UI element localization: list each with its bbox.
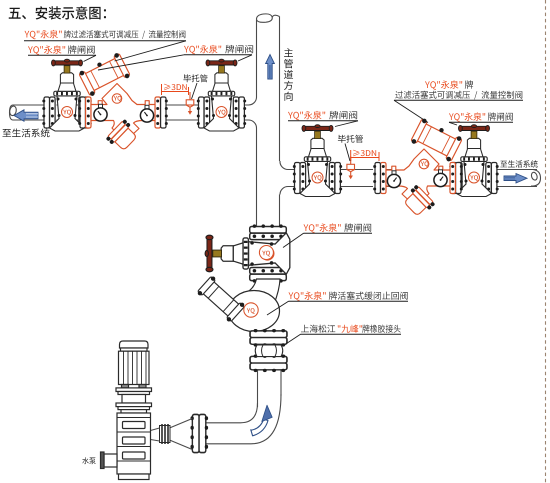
expanding cone xyxy=(170,419,193,450)
label L3 xyxy=(288,111,325,120)
label L1 xyxy=(25,30,62,39)
text pump xyxy=(82,457,95,464)
label L2b xyxy=(184,45,221,54)
control valve A xyxy=(78,52,168,154)
text main-pipe-direction xyxy=(284,48,293,101)
text pitot left xyxy=(183,74,207,82)
text pitot right xyxy=(338,135,363,143)
elbow flow arrow xyxy=(251,419,268,436)
label L5 xyxy=(304,223,341,232)
title xyxy=(9,6,106,19)
left branch pipe xyxy=(13,105,44,120)
label L2a xyxy=(28,45,65,54)
right branch pipe xyxy=(280,161,295,195)
gate valve 2 xyxy=(197,59,246,131)
gate valve 4 xyxy=(449,125,498,197)
rubber joint flanges xyxy=(250,329,287,347)
pipe open top mouth xyxy=(256,14,279,22)
check valve neck xyxy=(246,279,280,304)
text to-living left xyxy=(3,129,50,138)
flow arrow right xyxy=(504,174,527,184)
gate valve 5 (riser) xyxy=(205,224,290,282)
pump xyxy=(101,341,152,480)
page border dashed xyxy=(545,0,547,483)
ribbed connector xyxy=(160,424,171,444)
check valve bonnet xyxy=(196,275,246,323)
flow arrow left xyxy=(14,110,38,121)
dimension 3DN right xyxy=(351,150,379,161)
main vertical pipe xyxy=(257,17,280,162)
label L6 xyxy=(289,291,326,300)
gate valve A xyxy=(42,59,91,131)
pitot tube left xyxy=(186,92,194,115)
flow arrow up xyxy=(266,55,275,80)
gate valve 3 xyxy=(293,125,342,197)
pitot tube right xyxy=(347,157,355,180)
control valve B xyxy=(373,117,463,219)
text to-living right xyxy=(500,160,537,167)
check valve body xyxy=(229,291,280,332)
riser below rubber joint + elbow xyxy=(258,371,282,408)
label L1R xyxy=(425,80,462,89)
pump outlet flange pair xyxy=(190,414,208,452)
label L4 xyxy=(449,112,485,121)
dimension 3DN left xyxy=(162,84,189,95)
rubber joint barrel xyxy=(255,345,283,357)
label L7 xyxy=(301,325,335,333)
